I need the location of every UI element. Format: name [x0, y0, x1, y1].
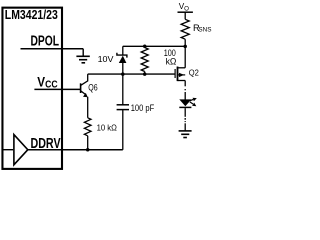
svg-text:100 pF: 100 pF: [131, 103, 155, 113]
svg-text:10V: 10V: [98, 54, 114, 64]
svg-text:10 kΩ: 10 kΩ: [97, 123, 118, 133]
svg-text:kΩ: kΩ: [166, 57, 177, 67]
svg-text:SNS: SNS: [198, 27, 212, 34]
svg-text:LM3421/23: LM3421/23: [5, 8, 58, 22]
svg-text:DPOL: DPOL: [31, 34, 60, 50]
svg-text:Q2: Q2: [189, 69, 200, 78]
svg-text:Q6: Q6: [88, 82, 97, 92]
svg-text:O: O: [184, 5, 189, 12]
